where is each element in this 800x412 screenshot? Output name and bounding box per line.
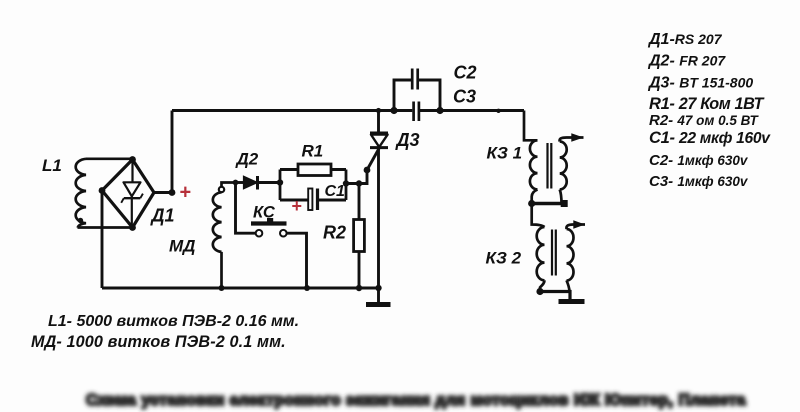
wire KC drop [236,183,256,234]
wire left bus [279,170,282,201]
wire bridge right corner to node [154,191,172,194]
capacitor C2 upper branch [390,107,397,114]
svg-text:R1: R1 [302,142,324,161]
svg-text:Схема установки электронного з: Схема установки электронного зажигания д… [86,392,746,409]
svg-text:C3- 1мкф 630v: C3- 1мкф 630v [649,173,749,190]
svg-text:КС: КС [253,204,276,222]
svg-text:C2: C2 [454,63,477,83]
resistor R1 [280,168,346,171]
svg-text:C1: C1 [325,183,346,200]
svg-text:+: + [180,181,192,203]
wire top rail [172,109,524,112]
svg-text:L1: L1 [42,156,62,175]
capacitor C3 on rail [412,102,415,122]
node plus output [169,189,176,196]
wire left vertical from + node to rail [171,111,174,193]
diode bridge D1 [102,160,154,228]
ignition coil KZ2 [532,204,585,292]
ignition coil KZ1 [524,111,584,204]
node D3 cathode to bottom rail junction [375,285,381,291]
svg-text:Д1-RS 207: Д1-RS 207 [647,31,723,48]
svg-text:C1- 22 мкф 160v: C1- 22 мкф 160v [649,129,771,147]
node small on rail [496,109,500,113]
watermark bar bottom [86,392,746,409]
capacitor C1 [280,199,346,202]
svg-text:Д1: Д1 [150,206,175,226]
svg-text:Д3- BT 151-800: Д3- BT 151-800 [647,75,753,92]
svg-text:C2- 1мкф 630v: C2- 1мкф 630v [649,152,749,169]
wire gate row [346,170,367,184]
switch KC [256,230,263,237]
wire gate diagonal to D3 [367,149,379,171]
diode D2 [244,176,258,189]
svg-text:+: + [292,196,303,216]
svg-text:C3: C3 [453,87,476,107]
transformer MD primary winding [219,187,224,192]
svg-text:Д3: Д3 [395,130,420,150]
wire bottom rail [102,287,378,290]
svg-text:Д2: Д2 [235,150,259,169]
ground KZ2 [559,299,585,304]
wire MD to D2 anode [236,181,244,184]
svg-text:КЗ 1: КЗ 1 [487,144,523,163]
node KC drop junction [233,180,239,186]
inductor L1 [76,159,133,228]
svg-text:МД: МД [169,237,195,256]
ground main [366,302,391,307]
thyristor D3 [377,111,380,134]
svg-text:R2- 47 ом 0.5 ВТ: R2- 47 ом 0.5 ВТ [649,112,760,129]
resistor R2 [358,184,361,220]
svg-text:Д2- FR 207: Д2- FR 207 [647,53,726,70]
svg-text:L1- 5000 витков ПЭВ-2 0.16 м: L1- 5000 витков ПЭВ-2 0.16 мм. [48,313,299,330]
svg-text:КЗ 2: КЗ 2 [486,249,522,268]
svg-text:МД- 1000 витков ПЭВ-2 0.1 мм.: МД- 1000 витков ПЭВ-2 0.1 мм. [31,333,286,351]
wire right bus [345,170,348,201]
node L1 start mark [78,218,83,223]
svg-text:R1- 27 Ком 1ВТ: R1- 27 Ком 1ВТ [649,95,766,113]
wire bridge left corner down [101,191,104,289]
svg-text:R2: R2 [323,223,346,243]
node left bus of R1/C1 [277,179,283,185]
